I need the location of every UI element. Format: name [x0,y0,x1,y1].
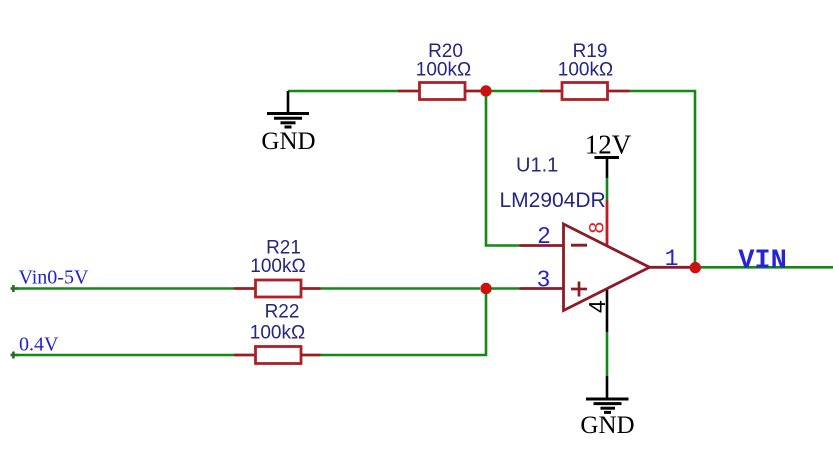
wire: GND1 to R20 left [288,90,398,93]
svg-text:R22: R22 [265,302,300,323]
output node junction [690,262,701,273]
svg-text:3: 3 [537,266,550,292]
wire: output VIN to right edge [701,266,833,269]
svg-text:2: 2 [538,222,551,248]
svg-text:LM2904DR: LM2904DR [500,189,606,212]
ground GND2 (bottom) [580,376,634,439]
svg-text:1: 1 [665,246,679,272]
power 12V [585,130,632,179]
svg-text:U1.1: U1.1 [516,155,558,177]
svg-text:100kΩ: 100kΩ [558,60,613,81]
pin 3 stub [520,287,564,290]
pin 8 stub (V+) [606,201,609,246]
wire: junction to R19 left [491,90,540,93]
svg-text:GND: GND [261,128,315,155]
pin 4 stub (V-) [606,289,609,333]
triangle body [564,224,650,311]
svg-text:100kΩ: 100kΩ [250,323,305,344]
plus marker [571,288,587,291]
junction node (R21/R22/pin3) [480,283,491,294]
wire: R21 right to junction [321,287,481,290]
resistor R19 [540,41,630,100]
op-amp U1.1 LM2904DR [500,155,691,333]
svg-text:100kΩ: 100kΩ [250,256,305,277]
resistor R21 [234,238,321,298]
svg-text:4: 4 [584,300,610,313]
pin 2 stub [520,244,564,247]
input wire 0.4V [11,334,235,359]
wire: feedback junction down to pin 2 [486,96,520,246]
pin 1 stub [650,266,691,269]
wire: input junction to pin 3 [491,287,520,290]
wire: R19 right to output node (corner) [630,91,696,267]
resistor R22 [234,302,321,364]
svg-text:12V: 12V [585,130,632,160]
ground GND1 (top-left) [261,91,315,155]
input wire Vin0-5V [11,267,235,293]
svg-text:Vin0-5V: Vin0-5V [19,267,89,289]
svg-text:0.4V: 0.4V [19,334,59,356]
wire: 12V to pin 8 [606,178,609,201]
wire: R22 right up to junction [321,294,487,355]
resistor R20 [398,41,482,100]
wire: pin 4 to GND2 [606,332,609,376]
svg-text:VIN: VIN [738,247,787,277]
svg-text:100kΩ: 100kΩ [416,60,471,81]
svg-text:8: 8 [585,222,608,234]
svg-text:GND: GND [580,412,634,439]
minus marker [571,244,587,247]
junction node (R20/R19/feedback) [480,85,491,96]
